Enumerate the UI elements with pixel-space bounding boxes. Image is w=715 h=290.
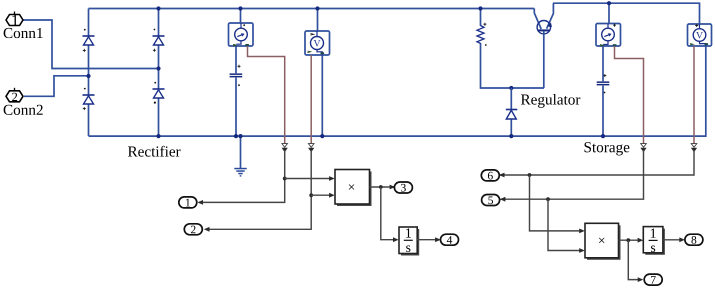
node bridge right mid [156, 66, 160, 70]
diode D1 upper-left [83, 29, 95, 52]
ground symbol [234, 168, 246, 177]
voltage sensor V1 [305, 31, 330, 55]
wire voltmeter V1 top [317, 9, 319, 32]
node right string bottom [156, 134, 160, 138]
node resistor top rail [478, 6, 482, 10]
current sensor A1 [229, 23, 254, 46]
signal line I1 output [417, 237, 441, 242]
wire top rail right [553, 3, 700, 24]
node C2 bottom rail [601, 134, 605, 138]
node zener bottom rail [509, 134, 513, 138]
wire ground stem [240, 136, 242, 168]
node bridge left mid [86, 74, 90, 78]
signal line storage current [500, 148, 647, 202]
voltage sensor V2 [688, 24, 712, 46]
diode D2 lower-left [83, 88, 95, 110]
open arrow V1 signal [308, 144, 314, 148]
signal line rectifier voltage [204, 148, 335, 232]
diode D3 upper-right [153, 29, 165, 52]
resistor R1 [477, 23, 487, 46]
wire A1 to capacitor C1 and bottom rail [235, 46, 237, 136]
outport 2 [184, 224, 202, 235]
wire Conn2 to bridge [24, 76, 89, 97]
connection port Conn1 [6, 12, 23, 26]
capacitor C1 [230, 65, 243, 86]
signal wire A2 red [615, 46, 644, 144]
node right string top [156, 6, 160, 10]
outport 6 [481, 170, 499, 181]
outport 1 [179, 197, 197, 208]
signal wire V2 red [693, 46, 695, 144]
signal wire V1 red [310, 55, 312, 144]
capacitor C2 [597, 74, 610, 93]
open arrow V2 signal [691, 144, 697, 148]
wire A2 to capacitor C2 and bottom rail [602, 46, 604, 136]
node regulator base junction [509, 86, 513, 90]
open arrow A1 signal [282, 144, 288, 148]
signal line I2 output [663, 237, 685, 242]
node C1 bottom rail [234, 134, 238, 138]
label Conn1 [4, 28, 43, 38]
node A1 top rail [238, 6, 242, 10]
open arrow A2 signal [641, 144, 647, 148]
wire resistor branch [481, 9, 545, 89]
wire ammeter A1 top [240, 9, 242, 24]
signal line X2 output [619, 238, 644, 282]
label Rectifier [128, 146, 181, 157]
wire V1 bottom to rail [321, 55, 323, 136]
outport 8 [685, 234, 703, 245]
signal line X1 output [370, 185, 399, 243]
outport 7 [644, 274, 662, 285]
current sensor A2 [596, 24, 621, 47]
multiplier block X1 [335, 170, 372, 207]
outport 3 [394, 182, 412, 193]
transistor Q1 [534, 3, 553, 88]
wire top rail left [89, 8, 535, 10]
zener diode D5 [506, 88, 518, 136]
signal line voltage to X2 [530, 175, 585, 233]
wire ammeter A2 top [608, 3, 610, 23]
signal line storage voltage [499, 148, 697, 178]
wire Conn1 to bridge [24, 20, 159, 69]
diode D4 lower-right [153, 82, 165, 104]
label Storage [585, 142, 630, 155]
multiplier block X2 [585, 223, 621, 259]
label Regulator [521, 94, 580, 108]
node A2 top rail [607, 1, 611, 5]
integrator block I2 [643, 227, 665, 255]
integrator block I1 [399, 227, 419, 256]
outport 4 [441, 234, 459, 245]
wire left diode string [88, 9, 90, 137]
wire right diode string [158, 9, 160, 137]
label Conn2 [4, 105, 43, 115]
node V1 top rail [315, 6, 319, 10]
node V1 bottom rail [320, 134, 324, 138]
wire bottom rail [89, 46, 706, 136]
signal line rectifier current [197, 148, 334, 205]
outport 5 [482, 195, 500, 206]
node ground rail [238, 134, 242, 138]
signal wire A1 red [248, 46, 285, 144]
signal line current to X2 [548, 199, 585, 253]
connection port Conn2 [6, 88, 23, 102]
